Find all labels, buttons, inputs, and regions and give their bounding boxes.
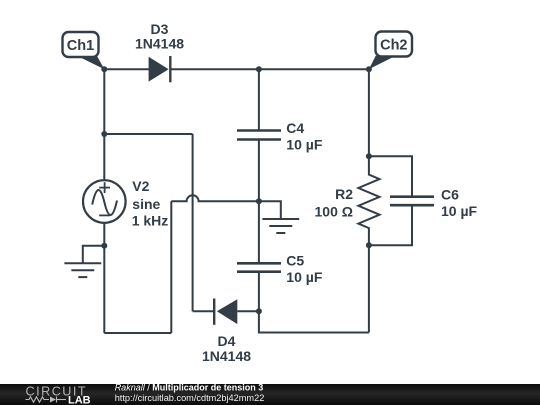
wire horizontal with hop to C-node	[171, 195, 259, 201]
capacitor C6	[390, 197, 434, 206]
wire bottom horizontal V2 to corner	[104, 332, 171, 334]
svg-text:1N4148: 1N4148	[202, 348, 251, 364]
capacitor C5	[237, 263, 281, 271]
wire C6 top branch	[369, 156, 412, 196]
wire to D4 cathode	[193, 310, 215, 312]
wire vertical corner up to y=201	[170, 201, 172, 333]
wire vertical up right side to R2 bottom node	[368, 245, 370, 332]
junction node Ch2	[366, 66, 372, 72]
svg-text:R2: R2	[335, 186, 353, 202]
svg-text:Ch2: Ch2	[380, 38, 407, 54]
junction node R2 top / C6	[366, 153, 372, 159]
Ch2 flag	[369, 32, 412, 70]
diode D4	[214, 299, 237, 325]
svg-text:1N4148: 1N4148	[135, 36, 184, 52]
junction node D4 anode / C5 bottom	[256, 308, 262, 314]
wire vertical x=192.6 down to D4	[192, 134, 194, 311]
junction node C4 top	[256, 66, 262, 72]
wire vertical Ch1 node down to V2 top	[103, 69, 105, 180]
wire top horizontal from Ch1 node to D3 anode	[104, 68, 149, 70]
voltage source V2	[83, 180, 126, 223]
junction node V2 minus / ground tap	[101, 243, 107, 249]
wire ground G2 tap	[259, 201, 281, 219]
svg-text:Ch1: Ch1	[67, 38, 94, 54]
ground G1 (left of V2)	[64, 263, 101, 277]
svg-text:LAB: LAB	[68, 395, 91, 405]
svg-text:100 Ω: 100 Ω	[315, 204, 353, 220]
wire Ch2 node down to R2 top node	[368, 69, 370, 156]
wire C4 bottom to C5 top	[258, 140, 260, 264]
svg-text:sine: sine	[132, 196, 160, 212]
wire V2 bottom down	[103, 223, 105, 333]
svg-text:C5: C5	[286, 253, 304, 269]
svg-text:10 µF: 10 µF	[286, 269, 323, 285]
wire C6 bottom branch	[369, 205, 412, 245]
svg-text:C4: C4	[286, 120, 304, 136]
svg-text:Raknall / Multiplicador de ten: Raknall / Multiplicador de tension 3	[115, 382, 264, 392]
wire from D3 cathode to Ch2 node	[170, 68, 369, 70]
wire D4 anode to node	[237, 310, 259, 312]
capacitor C4	[237, 131, 281, 140]
wire C4 top stub	[258, 69, 260, 130]
wire ground G1 tap	[83, 246, 105, 264]
svg-text:10 µF: 10 µF	[441, 203, 478, 219]
svg-text:C6: C6	[441, 186, 459, 202]
wire C5 bottom down to corner and right to R2 bottom	[259, 272, 369, 333]
diode D3	[149, 56, 171, 82]
junction node V2 plus branch	[101, 131, 107, 137]
junction node Ch1 / D3 anode	[101, 66, 107, 72]
svg-text:1 kHz: 1 kHz	[132, 213, 169, 229]
svg-text:10 µF: 10 µF	[286, 137, 323, 153]
wire branch node to D4: horizontal at y=134	[104, 133, 192, 135]
svg-text:D4: D4	[218, 333, 236, 349]
CircuitLab logo resistor+diode glyph	[26, 397, 67, 403]
junction node R2 bottom / C6	[366, 242, 372, 248]
resistor R2	[358, 156, 379, 245]
Ch1 flag	[63, 32, 105, 69]
svg-text:http://circuitlab.com/cdtm2bj4: http://circuitlab.com/cdtm2bj42mm22	[115, 393, 265, 403]
junction node mid ground / C4-C5	[256, 198, 262, 204]
svg-text:V2: V2	[132, 178, 149, 194]
ground G2 (mid)	[262, 219, 299, 233]
